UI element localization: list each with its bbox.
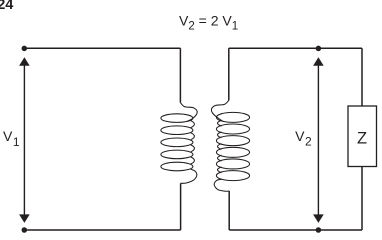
inductor L2 secondary entry hook [211, 100, 228, 121]
wire secondary top lead [228, 48, 230, 100]
inductor L2 secondary coil turns [216, 112, 249, 122]
wire top-left horizontal [24, 47, 180, 49]
svg-text:24: 24 [0, 0, 13, 13]
wire primary top lead [179, 48, 181, 102]
svg-text:V2: V2 [295, 128, 312, 149]
svg-text:V1: V1 [3, 128, 20, 149]
wire primary bottom lead [180, 183, 182, 230]
V2 arrowhead down [313, 214, 324, 223]
svg-text:V2 = 2 V1: V2 = 2 V1 [179, 12, 238, 32]
inductor L1 primary turn connectors [191, 121, 195, 164]
wire secondary bottom lead [228, 191, 230, 230]
resistor Z (impedance box) [348, 106, 377, 167]
wire bottom-right horizontal [229, 229, 362, 231]
V1 arrowhead up [19, 57, 30, 65]
V1 arrow shaft [23, 60, 25, 220]
inductor L2 secondary exit hook [214, 179, 229, 191]
node dot top-left terminal [22, 46, 28, 52]
inductor L2 secondary turn connectors [218, 120, 222, 172]
inductor L1 primary entry hook [180, 103, 197, 122]
wire right vertical upper [361, 48, 363, 106]
wire top-right horizontal [229, 47, 362, 49]
V1 arrowhead down [19, 214, 30, 223]
svg-text:Z: Z [357, 129, 367, 147]
node dot secondary bottom [316, 227, 322, 233]
V2 arrow shaft [317, 60, 319, 220]
inductor L1 primary coil turns [161, 114, 193, 123]
node dot bottom-left terminal [22, 227, 28, 233]
wire bottom-left horizontal [24, 229, 180, 231]
wire right vertical lower [361, 167, 363, 231]
V2 arrowhead up [313, 57, 324, 65]
node dot secondary top [316, 46, 322, 52]
inductor L1 primary exit hook [181, 169, 197, 183]
